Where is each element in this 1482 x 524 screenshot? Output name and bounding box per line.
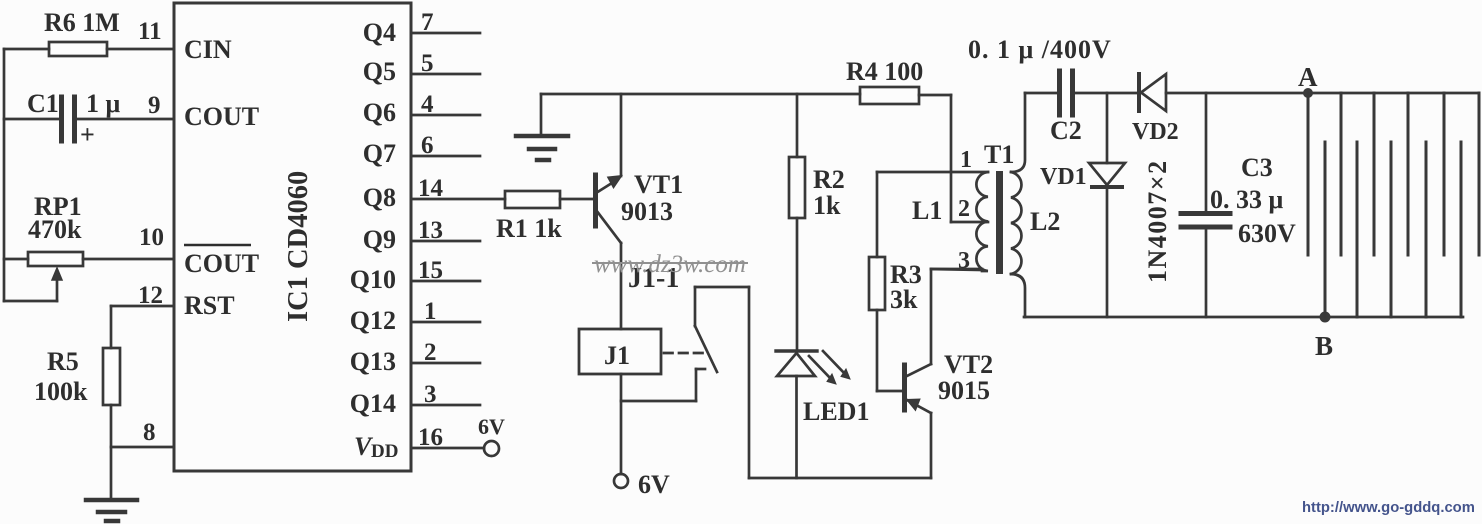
svg-text:T1: T1 (984, 140, 1014, 169)
resistor R5 (103, 348, 120, 499)
wire J1 to 6V (620, 374, 623, 474)
switch J1-1 (695, 287, 749, 478)
svg-text:VT1: VT1 (634, 170, 683, 199)
transformer T1 secondary L2 (1011, 93, 1025, 317)
svg-text:Q5: Q5 (363, 57, 396, 86)
potentiometer RP1 (4, 252, 174, 301)
overline COUT (184, 244, 251, 247)
svg-text:6V: 6V (478, 414, 505, 439)
svg-text:DD: DD (371, 441, 398, 462)
svg-text:B: B (1315, 331, 1333, 361)
svg-text:1N4007×2: 1N4007×2 (1143, 159, 1172, 283)
svg-text:VT2: VT2 (944, 350, 993, 379)
svg-text:630V: 630V (1238, 219, 1296, 248)
diode VD1 (1089, 93, 1125, 317)
wire J1 bottom to switch (621, 369, 705, 401)
svg-text:J1: J1 (604, 341, 630, 370)
svg-text:0. 1 μ /400V: 0. 1 μ /400V (968, 35, 1112, 64)
wire pin15 Q10 (411, 280, 480, 283)
svg-text:9015: 9015 (938, 376, 990, 405)
wire R4 to tap2 (951, 95, 988, 222)
capacitor C2 (1060, 71, 1073, 115)
wire pin4 Q6 (411, 114, 480, 117)
wire pin3 Q14 (411, 404, 480, 407)
svg-text:16: 16 (418, 424, 443, 451)
transformer T1 primary L1 (976, 172, 988, 271)
svg-text:3k: 3k (890, 285, 918, 314)
node B (1320, 312, 1331, 323)
svg-text:1k: 1k (813, 191, 841, 220)
svg-text:11: 11 (138, 18, 162, 45)
wire bottom bus mid (749, 477, 931, 480)
diode VD2 (1139, 74, 1166, 111)
svg-text:CIN: CIN (184, 35, 232, 64)
ground mid (516, 94, 568, 160)
transformer T1 core (996, 171, 1003, 274)
svg-text:9: 9 (148, 92, 161, 119)
svg-text:+: + (80, 120, 95, 149)
wire pin5 Q5 (411, 73, 480, 76)
wire pin2 Q13 (411, 362, 480, 365)
svg-text:5: 5 (421, 50, 434, 77)
wire pin8 (111, 446, 174, 449)
svg-text:470k: 470k (28, 215, 82, 244)
svg-text:LED1: LED1 (803, 397, 869, 426)
transistor VT1 9013 (596, 94, 623, 329)
grid electrode bottom teeth (1325, 142, 1461, 317)
svg-text:1: 1 (960, 147, 972, 173)
svg-text:COUT: COUT (184, 102, 259, 131)
LED LED1 (776, 351, 817, 478)
wire pin6 Q7 (411, 155, 480, 158)
wire left rail (3, 49, 6, 301)
svg-text:C2: C2 (1050, 116, 1082, 145)
LED1 arrows (809, 351, 850, 384)
transistor VT2 9015 (905, 269, 983, 478)
svg-text:13: 13 (418, 217, 443, 244)
svg-text:8: 8 (143, 419, 156, 446)
dashed link J1 to contact (664, 352, 703, 355)
svg-text:R2: R2 (813, 165, 845, 194)
svg-text:L1: L1 (912, 196, 942, 225)
wire pin1 Q12 (411, 321, 480, 324)
svg-text:3: 3 (424, 381, 437, 408)
svg-text:Q10: Q10 (350, 265, 396, 294)
op-amp U1 IC1 CD4060 body (174, 3, 411, 471)
svg-text:Q9: Q9 (363, 225, 396, 254)
svg-text:1 μ: 1 μ (86, 89, 121, 118)
svg-text:Q14: Q14 (350, 389, 396, 418)
capacitor C3 (1181, 93, 1230, 317)
svg-text:10: 10 (139, 224, 164, 251)
wire RST pin12 (111, 306, 174, 348)
wire pin14 Q8 (411, 198, 505, 201)
svg-text:R4 100: R4 100 (846, 57, 923, 86)
svg-text:6: 6 (421, 132, 434, 159)
svg-text:4: 4 (421, 91, 434, 118)
resistor R6 (4, 42, 174, 56)
svg-text:1: 1 (424, 298, 437, 325)
svg-text:12: 12 (138, 282, 163, 309)
wire top bus (541, 93, 860, 96)
svg-text:Q8: Q8 (363, 183, 396, 212)
svg-text:VD2: VD2 (1132, 119, 1179, 145)
svg-text:Q7: Q7 (363, 139, 396, 168)
resistor R4 (860, 87, 951, 104)
svg-text:Q6: Q6 (363, 98, 396, 127)
svg-text:14: 14 (418, 175, 444, 202)
resistor R3 (869, 172, 902, 391)
svg-text:Q13: Q13 (350, 347, 396, 376)
terminal 6V pin16 (484, 441, 499, 456)
node A (1303, 88, 1313, 98)
svg-text:VD1: VD1 (1040, 164, 1087, 190)
wire top bus right (1025, 92, 1479, 95)
grid electrode top teeth (1308, 93, 1479, 255)
svg-text:RST: RST (184, 291, 235, 320)
svg-text:0. 33 μ: 0. 33 μ (1210, 185, 1284, 214)
svg-text:9013: 9013 (621, 197, 673, 226)
svg-text:http://www.go-gddq.com: http://www.go-gddq.com (1302, 500, 1475, 516)
svg-text:Q12: Q12 (350, 306, 396, 335)
wire bottom bus right (1024, 316, 1463, 319)
svg-text:R6 1M: R6 1M (44, 8, 120, 37)
svg-text:R1 1k: R1 1k (496, 214, 562, 243)
wire pin7 Q4 (411, 32, 480, 35)
resistor R1 (505, 191, 593, 208)
svg-text:L2: L2 (1030, 207, 1060, 236)
wire tap3 (931, 269, 982, 270)
svg-text:2: 2 (958, 196, 970, 222)
svg-text:A: A (1298, 62, 1318, 92)
wire tap1 (877, 171, 988, 174)
svg-text:Q4: Q4 (363, 18, 396, 47)
svg-text:C3: C3 (1241, 153, 1273, 182)
svg-text:15: 15 (418, 257, 443, 284)
ground under R5 (86, 500, 137, 521)
resistor R2 (789, 94, 805, 351)
svg-text:2: 2 (424, 339, 437, 366)
capacitor C1 (4, 97, 174, 141)
svg-text:IC1 CD4060: IC1 CD4060 (283, 171, 314, 322)
wire pin16 VDD (411, 447, 484, 450)
svg-text:3: 3 (958, 248, 970, 274)
svg-text:100k: 100k (34, 377, 88, 406)
svg-text:C1: C1 (27, 89, 59, 118)
svg-text:www.dz3w.com: www.dz3w.com (594, 251, 746, 278)
relay J1 box (579, 329, 661, 374)
svg-text:7: 7 (421, 9, 434, 36)
svg-text:6V: 6V (638, 470, 670, 499)
wire pin13 Q9 (411, 240, 480, 243)
svg-text:R5: R5 (47, 347, 79, 376)
terminal 6V J1 (614, 474, 628, 488)
svg-text:COUT: COUT (184, 249, 259, 278)
